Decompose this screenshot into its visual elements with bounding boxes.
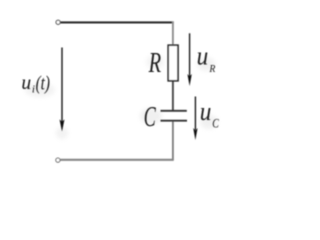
svg-text:u: u [200,97,212,126]
svg-text:C: C [144,102,156,133]
voltage arrow u_R head [187,74,191,86]
svg-text:u: u [21,70,31,94]
svg-text:(t): (t) [36,72,51,94]
capacitor C top plate [161,110,187,112]
wire right vertical (capacitor to bottom corner) [172,121,174,160]
svg-text:C: C [212,115,219,130]
capacitor C bottom plate [161,120,188,122]
wire top horizontal [60,21,173,23]
voltage arrow u_i(t) shaft [61,48,63,123]
wire bottom horizontal [60,159,173,161]
svg-text:R: R [209,63,216,75]
svg-text:u: u [197,42,209,71]
resistor R body [168,45,178,81]
voltage arrow u_C shaft [194,97,196,131]
svg-text:R: R [148,48,161,79]
scan smudge noise [25,55,218,139]
svg-text:i: i [32,84,35,96]
terminal top-left input node [56,20,60,24]
voltage arrow u_C head [193,128,197,140]
wire right vertical (top corner to resistor) [172,21,174,46]
voltage arrow u_i(t) head [60,119,65,131]
wire right vertical (resistor to capacitor) [172,80,174,111]
voltage arrow u_R shaft [189,33,191,76]
terminal bottom-left input node [56,158,60,162]
